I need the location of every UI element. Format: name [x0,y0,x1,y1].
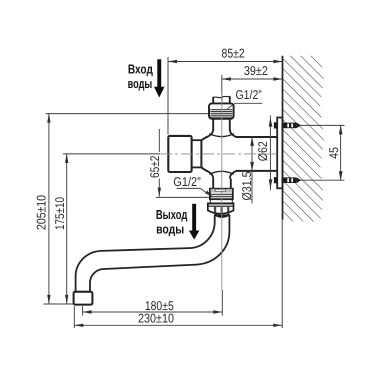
dimension 65±2 [158,129,161,197]
pipe-body junction bottom (flares and saddle) [207,171,236,179]
faucet body (center block to wall) [201,137,277,171]
dimension 230±10 [74,324,282,327]
wall face extension line (below wall) [281,220,283,328]
extension line x=222.3 (right end of 180 dim, faucet centerline) [221,290,223,316]
pipe between collar and body [213,119,230,130]
screw 2 (bottom anchor) [274,177,301,183]
dimension Ø31,5 [250,137,254,204]
dimension 39±2 [222,77,283,80]
svg-text:воды: воды [156,222,184,237]
horizontal centerline of body [160,153,277,155]
extension line x=168 (left end of 85 dim) [167,57,169,135]
dimension Ø62 [269,116,273,191]
svg-text:Ø31,5: Ø31,5 [240,172,254,201]
svg-text:205±10: 205±10 [35,195,49,230]
wall mounting plate [277,118,282,189]
vertical centerline of faucet [221,93,223,291]
handle housing (left cylinder) [168,136,191,172]
white ring between thread and nut [210,200,232,204]
pipe-body junction top (flares and saddle) [207,130,236,138]
dimension 205±10 [47,114,50,304]
svg-text:воды: воды [128,76,153,91]
nut bottom arc [215,214,230,217]
outlet thread cap G1/2 (lower) [210,189,233,200]
inlet pipe (top, with break) [213,96,231,103]
svg-text:Ø62: Ø62 [256,141,270,161]
extension line y=113.5 (top ref for 205 dim) [46,113,209,115]
extension line y=153.9 (centerline, ref for 175 dim) [63,153,160,155]
svg-text:G1/2”: G1/2” [236,88,262,102]
extension lines for 45 dim (from screws) [301,124,345,126]
extension line x=74.3 (left end of 230 dim) [73,306,75,328]
svg-text:45: 45 [327,147,341,159]
coupling nut with castellations [208,203,234,213]
outlet flow arrow [189,204,200,240]
dimension 45 [339,125,343,180]
extension line x=82.6 (left end of 180 dim) [82,306,84,316]
svg-text:230±10: 230±10 [138,312,174,326]
inlet collar nut G1/2 (top) [209,103,234,118]
svg-text:Выход: Выход [156,207,188,222]
outlet pipe below body [213,178,231,189]
spout aerator tip [74,292,93,305]
inlet flow arrow [154,59,165,97]
svg-text:175±10: 175±10 [53,197,67,230]
svg-text:39±2: 39±2 [244,64,268,78]
neck between housing and body [192,140,202,167]
wall hatch [283,56,324,222]
spout tube (S-curve) [76,215,230,291]
dimension 180±5 [83,310,223,313]
screw 1 (top anchor) [274,122,301,128]
svg-text:G1/2”: G1/2” [173,175,201,189]
wall face line [282,56,284,220]
extension line x=221.8 above collar (left end of 39 dim) [221,75,223,103]
svg-text:65±2: 65±2 [148,156,162,179]
dimension 175±10 [65,154,68,304]
dimension 85±2 [168,60,282,63]
extension line y=197.4 (bottom ref of 65 dim) [156,196,211,198]
svg-text:85±2: 85±2 [222,47,245,61]
svg-text:Вход: Вход [128,62,154,77]
extension line y=304 (bottom ref, spout tip) [44,303,74,305]
